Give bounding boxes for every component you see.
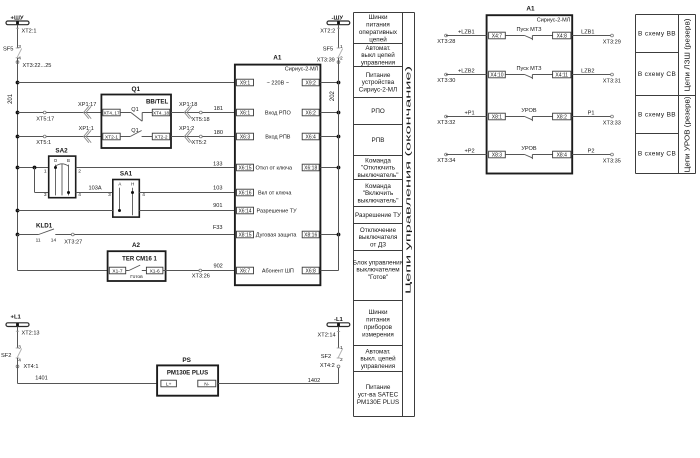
svg-text:Питание: Питание	[366, 384, 391, 391]
junction node (202 / X6:4)	[337, 135, 341, 139]
svg-text:Разрешение ТУ: Разрешение ТУ	[355, 212, 402, 219]
svg-text:Питание: Питание	[366, 72, 391, 79]
svg-text:В схему СВ: В схему СВ	[638, 71, 676, 78]
wire LZB1	[572, 30, 612, 36]
terminal X6:3	[237, 133, 254, 140]
relay contact KLD1	[36, 223, 57, 244]
svg-text:УРОВ: УРОВ	[521, 146, 537, 152]
svg-text:LZB2: LZB2	[581, 69, 594, 75]
svg-text:выключателем: выключателем	[356, 267, 399, 274]
terminal XT3:28	[437, 34, 455, 45]
label Вкл от ключа	[258, 191, 292, 197]
svg-text:X6:1: X6:1	[240, 111, 251, 117]
circuit-function table frame	[354, 13, 415, 417]
svg-text:103A: 103A	[89, 185, 102, 191]
svg-text:XT4:1: XT4:1	[24, 364, 39, 370]
terminal XT2:2	[320, 28, 340, 34]
svg-text:измерения: измерения	[362, 331, 394, 338]
switch SA2	[44, 147, 81, 197]
svg-text:PM130E PLUS: PM130E PLUS	[357, 399, 399, 406]
contact УРОВ (X8:1-X8:2)	[505, 108, 552, 121]
bus +ШУ	[6, 15, 29, 24]
svg-text:УРОВ: УРОВ	[521, 108, 537, 114]
wire 103A (SA2 to SA1)	[76, 185, 113, 192]
bus -L1	[327, 317, 350, 327]
terminal N-	[198, 380, 216, 387]
wire 103 (SA1 to X6:16)	[139, 185, 235, 192]
svg-text:РПО: РПО	[371, 108, 385, 115]
svg-text:XT3:26: XT3:26	[192, 273, 210, 279]
wire XT5:17 to Q1	[18, 112, 102, 114]
wire 133 (SA2 to X6:15)	[76, 161, 235, 167]
svg-text:уст-ва SATEC: уст-ва SATEC	[358, 392, 399, 399]
wire XT5:1 to Q1	[18, 136, 102, 138]
junction node (201 / 133 row)	[16, 166, 20, 170]
svg-text:LZB1: LZB1	[581, 30, 594, 36]
wire X8:16 to 202	[320, 234, 338, 236]
label ~ 220В ~	[267, 81, 289, 87]
svg-text:О: О	[54, 158, 58, 163]
wire -ШУ to SF5	[338, 25, 340, 48]
svg-text:управления: управления	[361, 363, 395, 370]
svg-text:X4:8: X4:8	[557, 34, 568, 40]
terminal X6:8	[302, 267, 319, 274]
svg-text:XT3:34: XT3:34	[437, 158, 455, 164]
wire 902 (A2 to X6:7)	[163, 263, 235, 270]
wire P1	[572, 111, 612, 117]
terminal X4:10	[489, 71, 506, 78]
breaker SF2 (right)	[321, 345, 343, 363]
svg-text:XT2:2: XT2:2	[320, 28, 335, 34]
svg-text:XT3:35: XT3:35	[603, 159, 621, 165]
wire X6:2 to 202	[320, 112, 338, 114]
svg-text:SA2: SA2	[55, 147, 68, 154]
svg-text:F33: F33	[213, 225, 223, 231]
svg-text:A1: A1	[273, 55, 282, 62]
wire +L1 to SF2	[17, 327, 19, 348]
svg-text:"Включить: "Включить	[363, 190, 394, 197]
terminal XT2:1	[16, 28, 37, 34]
svg-text:X8:15: X8:15	[238, 233, 251, 239]
connector XP1:2	[179, 126, 194, 143]
terminal XT3:32	[437, 115, 455, 126]
svg-text:XP1:18: XP1:18	[179, 102, 197, 108]
terminal X9:2	[302, 79, 319, 86]
svg-text:TER CM16 1: TER CM16 1	[122, 256, 157, 262]
terminal XT4:2	[320, 363, 340, 369]
terminal XT3:30	[437, 73, 455, 84]
label Вход РПО	[265, 111, 292, 117]
svg-text:В схему ВВ: В схему ВВ	[638, 112, 676, 119]
terminal X6:15	[237, 164, 254, 171]
svg-text:4: 4	[18, 357, 21, 363]
svg-text:выкл. цепей: выкл. цепей	[360, 355, 396, 363]
svg-text:Q1: Q1	[131, 128, 138, 134]
junction node (202 / X6:2)	[337, 111, 341, 115]
svg-text:+LZB1: +LZB1	[458, 30, 475, 36]
wire 201 vertical	[8, 58, 17, 271]
svg-text:питания: питания	[366, 317, 390, 324]
svg-text:X6:16: X6:16	[238, 191, 251, 197]
terminal XT4:1	[16, 364, 38, 370]
terminal X9:1	[237, 79, 254, 86]
svg-text:902: 902	[213, 263, 222, 269]
connector XP1:17	[78, 102, 96, 119]
svg-text:XT2:1: XT2:1	[22, 28, 37, 34]
terminal XT3:26	[192, 269, 210, 279]
connector XP1:18	[179, 102, 197, 119]
svg-text:3: 3	[44, 192, 47, 198]
junction node (201 / F33 row)	[16, 233, 20, 237]
terminal XT5:17	[36, 111, 54, 123]
svg-text:Пуск МТЗ: Пуск МТЗ	[517, 27, 543, 33]
svg-text:XT3:28: XT3:28	[437, 39, 455, 45]
wire to X9:1	[18, 82, 235, 84]
svg-text:180: 180	[214, 130, 223, 136]
svg-text:А: А	[118, 182, 121, 187]
svg-text:4: 4	[18, 55, 21, 61]
destination table frame	[636, 15, 696, 174]
terminal XT2:13	[16, 330, 40, 336]
svg-text:XT2-2: XT2-2	[155, 135, 168, 141]
svg-text:X6:7: X6:7	[240, 269, 251, 275]
svg-text:XP1:2: XP1:2	[179, 126, 194, 132]
contact A2 Готов	[126, 265, 147, 280]
svg-text:X6:2: X6:2	[306, 111, 317, 117]
switch SA1	[108, 170, 145, 217]
svg-text:Абонент ШП: Абонент ШП	[262, 269, 294, 275]
svg-text:от ДЗ: от ДЗ	[370, 242, 386, 249]
svg-text:XT3:31: XT3:31	[603, 79, 621, 85]
svg-text:L+: L+	[166, 382, 172, 388]
svg-text:-L1: -L1	[334, 317, 344, 323]
svg-text:1: 1	[340, 345, 343, 351]
svg-text:Цепи управления (окончание): Цепи управления (окончание)	[404, 66, 413, 294]
breaker SF5 (right)	[323, 44, 343, 61]
svg-text:X6:3: X6:3	[240, 135, 251, 141]
svg-text:X6:8: X6:8	[306, 269, 317, 275]
svg-text:XT4..18: XT4..18	[153, 111, 170, 116]
svg-text:питания: питания	[366, 22, 390, 29]
svg-text:P2: P2	[588, 149, 595, 155]
wire X9:2 to 202	[320, 82, 338, 84]
svg-text:Отключение: Отключение	[360, 227, 397, 234]
terminal X8:4	[553, 151, 571, 158]
table cell: В схему СВ (2)	[638, 71, 676, 78]
junction node (202 / X6:18)	[337, 166, 341, 170]
table cell: В схему ВВ (1)	[638, 31, 676, 38]
svg-text:Q1: Q1	[132, 86, 141, 93]
svg-text:X8:3: X8:3	[492, 153, 503, 159]
svg-text:X8:1: X8:1	[492, 115, 503, 121]
svg-text:X6:15: X6:15	[238, 166, 251, 172]
svg-text:A2: A2	[132, 242, 141, 249]
svg-text:XT3:33: XT3:33	[603, 121, 621, 127]
svg-text:PS: PS	[182, 357, 191, 364]
contact Пуск МТЗ (X4:10-X4:11)	[505, 66, 552, 79]
svg-text:2: 2	[78, 169, 81, 175]
wire to SA2 pin 1	[18, 167, 49, 169]
junction node (201 / X9:1 row)	[16, 81, 20, 85]
terminal X6:16	[237, 189, 254, 196]
svg-text:XT3:22...25: XT3:22...25	[23, 63, 52, 69]
svg-text:11: 11	[36, 237, 41, 243]
svg-text:X4:11: X4:11	[555, 73, 568, 79]
wire 901 (SA1 to X6:14)	[139, 203, 235, 211]
svg-text:PM130E PLUS: PM130E PLUS	[167, 369, 208, 376]
svg-text:управления: управления	[361, 60, 395, 67]
svg-text:2: 2	[340, 357, 343, 363]
label Абонент ШП	[262, 269, 294, 275]
terminal X6:1	[237, 109, 254, 116]
table cell: Питание...	[359, 72, 397, 94]
svg-text:оперативных: оперативных	[359, 29, 398, 36]
svg-text:Команда: Команда	[365, 183, 391, 190]
terminal X4:7	[489, 32, 506, 39]
terminal X1-7	[109, 267, 125, 274]
svg-text:Сириус-2-МЛ: Сириус-2-МЛ	[537, 17, 571, 23]
svg-text:~ 220В ~: ~ 220В ~	[267, 81, 289, 87]
svg-text:"Отключить: "Отключить	[361, 165, 396, 172]
svg-text:14: 14	[51, 237, 57, 243]
svg-text:N-: N-	[204, 382, 209, 388]
svg-text:XT3:29: XT3:29	[603, 40, 621, 46]
svg-text:XT3:32: XT3:32	[437, 120, 455, 126]
terminal X6:14	[237, 207, 254, 214]
svg-text:+L1: +L1	[11, 315, 22, 321]
svg-text:3: 3	[18, 44, 21, 50]
wire -L1 to SF2	[338, 327, 340, 348]
svg-text:202: 202	[330, 90, 336, 101]
terminal XT5:1	[36, 135, 51, 146]
svg-text:Вкл от ключа: Вкл от ключа	[258, 191, 292, 197]
svg-text:1402: 1402	[308, 378, 320, 384]
svg-text:выключатель": выключатель"	[358, 198, 399, 205]
label Дуговая защита	[256, 233, 298, 239]
table cell: В схему ВВ (3)	[638, 112, 676, 119]
terminal X6:2	[302, 109, 319, 116]
terminal XT3:22...25	[16, 61, 51, 69]
svg-text:Блок управления: Блок управления	[353, 259, 403, 266]
svg-text:XT2:13: XT2:13	[22, 330, 40, 336]
svg-text:В схему ВВ: В схему ВВ	[638, 31, 676, 38]
junction node (201 / Q1 bottom row)	[16, 135, 20, 139]
svg-text:Q1: Q1	[131, 107, 138, 113]
wire P2	[572, 149, 612, 155]
terminal XT2:14	[318, 332, 341, 339]
terminal XT5:2	[192, 135, 207, 146]
svg-text:X8:16: X8:16	[304, 233, 317, 239]
svg-text:XP1:17: XP1:17	[78, 102, 96, 108]
svg-text:Пуск МТЗ: Пуск МТЗ	[517, 66, 543, 72]
svg-text:BB/TEL: BB/TEL	[146, 98, 169, 105]
vacuum breaker Q1 (BB/TEL) box	[101, 86, 171, 148]
svg-text:201: 201	[8, 93, 14, 104]
svg-text:X6:18: X6:18	[304, 166, 317, 172]
table cell: Шинки...	[362, 309, 394, 338]
svg-text:XT5:18: XT5:18	[192, 117, 210, 123]
table cell: Команда...	[358, 157, 399, 179]
svg-text:P1: P1	[588, 111, 595, 117]
terminal X6:18	[302, 164, 319, 171]
svg-text:2: 2	[340, 55, 343, 61]
terminal X4:8	[553, 32, 571, 39]
vertical label Цепи управления (окончание)	[404, 66, 413, 294]
svg-text:XT4..17: XT4..17	[103, 111, 120, 116]
terminal XT4-17	[103, 109, 120, 116]
svg-text:+LZB2: +LZB2	[458, 69, 475, 75]
svg-text:SF2: SF2	[321, 354, 331, 360]
svg-text:SA1: SA1	[120, 170, 133, 177]
label Разрешение ТУ	[257, 209, 298, 215]
terminal X1-6	[146, 267, 163, 274]
svg-text:1: 1	[340, 44, 343, 50]
terminal X6:7	[237, 267, 254, 274]
contact Q1 (top, aux)	[120, 107, 152, 121]
svg-text:X8:2: X8:2	[557, 115, 568, 121]
svg-text:1401: 1401	[35, 376, 47, 382]
svg-text:Шинки: Шинки	[368, 14, 388, 21]
terminal X6:4	[302, 133, 319, 140]
wire 180 (Q1 to X6:3)	[171, 130, 235, 137]
table cell: РПО...	[371, 108, 385, 115]
svg-text:приборов: приборов	[364, 323, 393, 331]
svg-text:X9:2: X9:2	[306, 81, 317, 87]
wire X6:18 to 202	[320, 167, 338, 169]
bus +L1	[6, 315, 29, 327]
contact Q1 (bottom, aux)	[120, 128, 152, 136]
svg-text:+P2: +P2	[464, 149, 474, 155]
svg-text:X9:1: X9:1	[240, 81, 251, 87]
svg-text:3: 3	[108, 192, 111, 198]
wire X6:4 to 202	[320, 136, 338, 138]
table cell: РПВ...	[372, 137, 385, 144]
label Вход РПВ	[265, 135, 291, 141]
junction node (SA2 branch)	[33, 166, 37, 170]
connector XP1:1	[79, 126, 94, 143]
svg-text:Вход РПО: Вход РПО	[265, 111, 292, 117]
svg-text:устройства: устройства	[362, 78, 395, 86]
svg-text:Шинки: Шинки	[368, 309, 388, 316]
svg-text:Автомат.: Автомат.	[365, 45, 391, 52]
svg-text:103: 103	[213, 185, 222, 191]
wire SA2 branch to pin 3	[35, 168, 49, 193]
svg-text:X1-6: X1-6	[150, 269, 160, 275]
contact УРОВ (X8:3-X8:4)	[505, 146, 552, 159]
svg-text:XT5:17: XT5:17	[36, 117, 54, 123]
bus -ШУ	[327, 15, 350, 24]
label Откл от ключа	[256, 166, 294, 172]
terminal XT3:27	[64, 233, 82, 245]
wire 181 (Q1 to X6:1)	[171, 106, 235, 112]
svg-text:SF5: SF5	[3, 46, 13, 52]
terminal XT4-18	[152, 109, 170, 116]
wire 901 left segment	[18, 210, 113, 212]
wire +LZB1	[446, 30, 487, 36]
device A1 Сириус-2-МЛ (left)	[235, 55, 321, 286]
svg-text:Цепи ЛЗШ (резерв): Цепи ЛЗШ (резерв)	[685, 19, 692, 92]
terminal XT2-2	[152, 133, 170, 140]
svg-text:X4:7: X4:7	[492, 34, 503, 40]
terminal XT3:33	[603, 115, 621, 126]
svg-text:Готов: Готов	[130, 274, 143, 280]
terminal X4:11	[553, 71, 571, 78]
terminal XT3:31	[603, 73, 621, 84]
wire X6:8 to 202 end	[320, 270, 338, 272]
table cell: Разрешение ТУ...	[355, 212, 402, 219]
wire segment +ШУ to SF5	[17, 25, 19, 48]
svg-text:выключателя: выключателя	[359, 234, 398, 241]
svg-text:X4:10: X4:10	[490, 73, 503, 79]
svg-text:XT4:2: XT4:2	[320, 363, 335, 369]
vertical label Цепи ЛЗШ (резерв)	[685, 19, 692, 92]
svg-text:SF2: SF2	[1, 353, 11, 359]
terminal XT3:34	[437, 153, 455, 164]
junction node (201 / 901 row)	[16, 209, 20, 213]
svg-text:XT5:1: XT5:1	[36, 140, 51, 146]
terminal XT3:29	[603, 34, 621, 45]
svg-text:1: 1	[44, 169, 47, 175]
svg-text:SF5: SF5	[323, 46, 333, 52]
relay A2 (TER CM16 1)	[108, 242, 166, 281]
svg-text:РПВ: РПВ	[372, 137, 385, 144]
terminal X8:16	[302, 231, 319, 238]
table cell: Автомат....	[360, 348, 396, 370]
breaker SF2 (left)	[1, 345, 22, 364]
wire LZB2	[572, 69, 612, 75]
svg-text:Дуговая защита: Дуговая защита	[256, 233, 298, 239]
svg-text:Сириус-2-МЛ: Сириус-2-МЛ	[359, 87, 397, 94]
svg-text:Откл от ключа: Откл от ключа	[256, 166, 294, 172]
table cell: Питание...	[357, 384, 399, 406]
terminal X8:15	[237, 231, 254, 238]
svg-text:Команда: Команда	[365, 157, 391, 164]
svg-text:XT3:27: XT3:27	[64, 239, 82, 245]
svg-text:XT3:30: XT3:30	[437, 78, 455, 84]
terminal L+	[161, 380, 177, 387]
terminal X8:3	[489, 151, 506, 158]
svg-text:3: 3	[18, 345, 21, 351]
wire +P1	[446, 111, 487, 117]
terminal X8:1	[489, 113, 506, 120]
table cell: Команда...	[358, 183, 399, 205]
svg-text:XT5:2: XT5:2	[192, 140, 207, 146]
svg-text:Вход РПВ: Вход РПВ	[265, 135, 291, 141]
junction node (202 / X9:2)	[337, 81, 341, 85]
device A1 Сириус-2-МЛ (right)	[487, 6, 573, 174]
wire F33 (KLD1 to X8:15)	[55, 225, 235, 235]
svg-text:XT2:14: XT2:14	[318, 332, 336, 338]
svg-text:XP1:1: XP1:1	[79, 126, 94, 132]
svg-text:X6:4: X6:4	[306, 135, 317, 141]
table cell: Блок управления...	[353, 259, 403, 281]
svg-text:901: 901	[213, 203, 222, 209]
svg-text:133: 133	[213, 161, 222, 167]
power meter PS (PM130E PLUS)	[157, 357, 218, 395]
terminal XT5:18	[192, 111, 210, 123]
vertical label Цепи УРОВ (резерв)	[685, 97, 692, 173]
svg-text:выключатель": выключатель"	[358, 172, 399, 179]
wire to KLD1	[18, 234, 39, 236]
svg-text:XT3:39: XT3:39	[317, 57, 335, 63]
wire 1401 (to PS L+)	[18, 358, 158, 384]
table cell: В схему СВ (4)	[638, 151, 676, 158]
table cell: Автомат....	[361, 45, 395, 67]
svg-text:В схему СВ: В схему СВ	[638, 151, 676, 158]
wire 201 to A2	[18, 235, 108, 271]
wire 202 vertical	[330, 58, 339, 271]
terminal XT3:39	[317, 57, 340, 63]
